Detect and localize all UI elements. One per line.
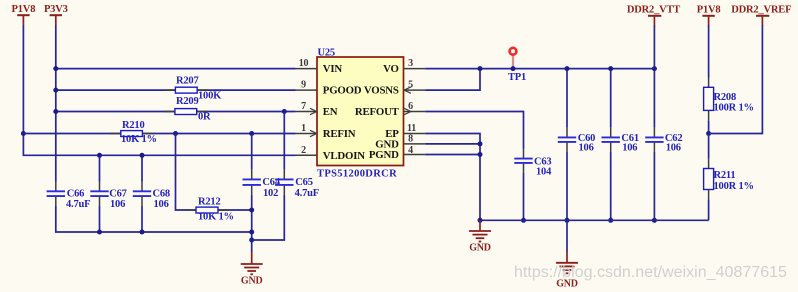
wire C62 branch (653, 69, 655, 128)
node VLDOIN/C68 (140, 153, 145, 158)
ground GND (left, under C64) (241, 252, 263, 287)
wire VO line (425, 68, 654, 70)
node rail/C63 (521, 218, 526, 223)
svg-text:10K 1%: 10K 1% (198, 212, 234, 223)
svg-text:C65: C65 (295, 177, 312, 188)
node rail/riser (478, 218, 483, 223)
pin 6 REFOUT (output arrow) (355, 101, 425, 118)
svg-text:2: 2 (301, 145, 306, 156)
capacitor C62 106 (645, 128, 682, 154)
node rail/C61 (608, 218, 613, 223)
node EN/C65 (282, 109, 287, 114)
svg-text:GND: GND (241, 276, 263, 287)
wire ground rail (right) (480, 219, 709, 221)
svg-text:106: 106 (154, 199, 169, 210)
svg-text:VIN: VIN (323, 63, 343, 75)
svg-text:102: 102 (263, 188, 278, 199)
svg-text:TP1: TP1 (508, 72, 526, 83)
wire C67 branch (99, 155, 101, 181)
wire C61 branch (610, 69, 612, 128)
pin 1 REFIN (input arrow) (296, 123, 356, 140)
svg-text:4.7uF: 4.7uF (66, 199, 90, 210)
wire DDR2_VREF down to divider node (709, 25, 763, 133)
pin 10 VIN (296, 58, 343, 75)
node C64 col / left rail (249, 230, 254, 235)
test point TP1 (508, 48, 526, 83)
power symbol DDR2_VREF (731, 4, 791, 26)
svg-text:R208: R208 (714, 92, 737, 103)
svg-text:R212: R212 (198, 196, 221, 207)
svg-text:104: 104 (536, 167, 552, 178)
node REFIN/C64 (249, 131, 254, 136)
wire R208 bottom to VREF node (708, 120, 710, 133)
svg-text:R209: R209 (176, 96, 199, 107)
svg-text:10K 1%: 10K 1% (121, 134, 157, 145)
capacitor C68 106 (133, 182, 170, 211)
capacitor C65 4.7uF (275, 170, 319, 199)
wire R212 branch down (176, 134, 252, 211)
wire P1V8 down to R208 (708, 25, 710, 77)
svg-text:9: 9 (301, 80, 306, 91)
wire EP/GND/PGND to ground riser (425, 134, 480, 221)
svg-text:0R: 0R (198, 112, 211, 123)
pin 5 VOSNS (input arrow) (364, 80, 425, 97)
node rail/C60 (565, 218, 570, 223)
svg-text:U25: U25 (318, 47, 335, 58)
wire C64 branch down (251, 134, 253, 170)
node rail/C68 (140, 230, 145, 235)
node P3V3/VIN (53, 66, 58, 71)
wire PGOOD line (56, 89, 296, 91)
svg-text:C68: C68 (153, 189, 170, 200)
svg-text:P1V8: P1V8 (12, 4, 36, 15)
svg-text:100R 1%: 100R 1% (714, 181, 754, 192)
wire C62 bottom (653, 152, 655, 220)
wire C60 branch (566, 69, 568, 128)
node VO/C61 (608, 66, 613, 71)
capacitor C61 106 (602, 128, 639, 154)
power symbol P3V3 (44, 4, 68, 26)
svg-text:R211: R211 (714, 170, 736, 181)
svg-text:8: 8 (408, 134, 413, 145)
wire C60 bottom (566, 152, 568, 220)
svg-text:GND: GND (469, 242, 491, 253)
wire C64 bottom to GND (251, 195, 253, 252)
wire VREF node to R211 (708, 134, 710, 159)
svg-text:R210: R210 (122, 120, 145, 131)
wire P1V8 vertical down to VLDOIN rail (23, 25, 295, 155)
wire pin8 GND (425, 143, 480, 145)
node REFIN/R212 branch (173, 131, 178, 136)
pin 3 VO (383, 58, 425, 75)
node rail/C62 (652, 218, 657, 223)
resistor R211 100R 1% (vertical) (704, 159, 754, 200)
svg-text:4: 4 (408, 145, 413, 156)
wire VIN line (56, 68, 296, 70)
power symbol P1V8 (top left) (12, 4, 36, 26)
svg-text:DDR2_VREF: DDR2_VREF (731, 4, 791, 15)
pin 11 EP (385, 123, 425, 140)
resistor R208 100R 1% (vertical) (704, 78, 754, 121)
ground GND (hanging at x=567) (556, 220, 578, 289)
wire C67 bottom (99, 206, 101, 232)
svg-text:106: 106 (110, 199, 125, 210)
node C64 col / C65 return (249, 238, 254, 243)
wire P3V3 vertical (55, 25, 57, 182)
svg-text:100R 1%: 100R 1% (714, 102, 754, 113)
node riser/pin4 (478, 152, 483, 157)
svg-text:106: 106 (579, 143, 594, 154)
svg-text:R207: R207 (176, 76, 199, 87)
node riser/pin8 (478, 141, 483, 146)
wire R211 bottom to rail (708, 199, 710, 220)
svg-text:VOSNS: VOSNS (364, 85, 399, 97)
svg-text:EN: EN (323, 106, 338, 118)
power symbol DDR2_VTT (627, 4, 680, 26)
power symbol P1V8 (top right) (697, 4, 721, 26)
resistor R212 10K 1% (185, 196, 234, 222)
node VO/C60 (565, 66, 570, 71)
svg-text:C66: C66 (67, 189, 84, 200)
node VLDOIN/C67 (97, 153, 102, 158)
svg-text:1: 1 (301, 123, 306, 134)
resistor R210 10K 1% (110, 120, 157, 145)
pin 8 GND (375, 134, 425, 151)
capacitor C60 106 (558, 128, 595, 154)
node VO/TP1 (511, 66, 516, 71)
node rail/C67 (97, 230, 102, 235)
wire REFIN line (23, 133, 295, 135)
capacitor C66 4.7uF (on P3V3) (47, 182, 91, 211)
svg-text:PGND: PGND (369, 149, 399, 161)
svg-text:TPS51200DRCR: TPS51200DRCR (317, 169, 397, 180)
capacitor C64 102 (243, 170, 281, 199)
node P3V3/EN (53, 109, 58, 114)
svg-text:VO: VO (383, 63, 399, 75)
wire C68 branch (141, 155, 143, 181)
wire DDR2_VTT down to VO (653, 25, 655, 68)
svg-text:10: 10 (299, 58, 309, 69)
pin 4 PGND (369, 145, 425, 161)
node VO/VOSNS (478, 66, 483, 71)
node VO/C62/DDR2_VTT (652, 66, 657, 71)
wire C63 bottom (523, 173, 525, 220)
svg-text:5: 5 (408, 80, 413, 91)
svg-text:106: 106 (622, 143, 637, 154)
wire EN line (56, 111, 296, 113)
svg-text:https://blog.csdn.net/weixin_4: https://blog.csdn.net/weixin_40877615 (514, 264, 787, 281)
node C64 col / R212 (249, 208, 254, 213)
svg-text:PGOOD: PGOOD (323, 85, 362, 97)
svg-text:11: 11 (407, 123, 416, 134)
wire pin4 PGND (425, 154, 480, 156)
wire C66 bottom to rail (56, 206, 252, 232)
capacitor C63 104 (514, 149, 552, 178)
pin 2 VLDOIN (296, 145, 366, 162)
ground GND (under riser x=480) (469, 220, 491, 253)
svg-text:100K: 100K (198, 91, 222, 102)
svg-text:3: 3 (408, 58, 413, 69)
svg-text:7: 7 (301, 101, 306, 112)
wire C65 branch down (283, 112, 285, 170)
resistor R207 100K (165, 76, 222, 102)
op-amp/regulator U25 TPS51200DRCR body (317, 47, 404, 179)
wire C65 bottom return (252, 195, 285, 240)
svg-text:P1V8: P1V8 (697, 4, 721, 15)
svg-text:REFOUT: REFOUT (355, 106, 400, 118)
svg-text:VLDOIN: VLDOIN (323, 150, 365, 162)
svg-text:4.7uF: 4.7uF (295, 188, 319, 199)
pin 7 EN (input arrow) (296, 101, 338, 118)
capacitor C67 106 (90, 182, 126, 211)
svg-text:P3V3: P3V3 (44, 4, 68, 15)
wire C61 bottom (610, 152, 612, 220)
svg-text:DDR2_VTT: DDR2_VTT (627, 4, 680, 15)
wire VOSNS up to VO (425, 69, 480, 91)
node P1V8/REFIN junction (21, 131, 26, 136)
svg-text:REFIN: REFIN (323, 128, 356, 140)
pin 9 PGOOD (296, 80, 362, 97)
wire REFOUT to C63 (425, 112, 523, 149)
node VREF divider junction (706, 131, 711, 136)
resistor R209 0R (164, 96, 211, 123)
svg-text:C67: C67 (109, 189, 126, 200)
wire C68 bottom (141, 206, 143, 232)
node P3V3/PGOOD (53, 88, 58, 93)
svg-text:106: 106 (666, 143, 681, 154)
